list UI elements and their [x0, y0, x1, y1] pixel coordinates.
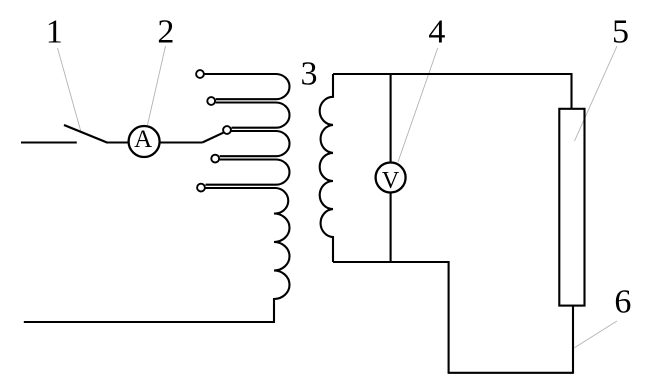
leader line from label 1 to switch	[58, 48, 82, 132]
leader line from label 6 to wire	[574, 321, 617, 348]
leader line from label 4 to voltmeter	[398, 48, 438, 162]
wire: load bottom lead	[572, 305, 574, 374]
wire: bottom-left supply terminal	[24, 321, 275, 323]
resistor R (load)	[559, 109, 584, 306]
ammeter A	[129, 126, 160, 157]
wire: top-left supply terminal	[21, 141, 77, 143]
svg-text:A: A	[134, 126, 152, 153]
transformer T1 secondary winding	[320, 74, 333, 262]
primary winding loop 4 (tap4-tap5)	[206, 160, 290, 185]
svg-text:3: 3	[301, 56, 318, 93]
voltmeter V	[376, 163, 406, 193]
wire: secondary top rail	[333, 73, 572, 75]
tap contact circle 5	[197, 184, 205, 192]
svg-text:4: 4	[428, 14, 445, 51]
transformer T1 primary winding loop 1 (tap1-tap2)	[205, 74, 290, 99]
wire: switch to ammeter	[106, 141, 129, 143]
tap contact circle 2	[207, 97, 215, 105]
wire: load top lead	[570, 73, 572, 109]
svg-text:1: 1	[46, 14, 63, 51]
primary winding loop 2 (tap2-tap3)	[216, 103, 290, 128]
wire: voltmeter branch lower	[390, 193, 392, 263]
wire: ammeter to selector arm	[160, 141, 203, 143]
wire: secondary bottom rail	[333, 261, 449, 263]
leader line from label 2 to ammeter	[148, 46, 166, 125]
svg-text:2: 2	[157, 14, 174, 51]
primary winding lower section (below tap5)	[206, 188, 290, 322]
wire: bottom rail to load (labelled 6)	[448, 372, 573, 374]
svg-text:V: V	[382, 168, 400, 194]
svg-text:5: 5	[612, 13, 629, 50]
wire: right step-down vertical	[448, 261, 450, 373]
tap contact circle 3 (selected)	[223, 126, 231, 134]
switch S1 blade (open)	[64, 125, 107, 143]
svg-text:6: 6	[614, 283, 631, 320]
primary winding loop 3 (tap3-tap4)	[220, 131, 290, 156]
tap contact circle 4	[211, 155, 219, 163]
selector arm to tap 3	[202, 133, 223, 143]
tap contact circle 1	[196, 70, 204, 78]
wire: voltmeter branch upper	[390, 73, 392, 162]
leader line from label 5 to resistor	[575, 46, 618, 141]
